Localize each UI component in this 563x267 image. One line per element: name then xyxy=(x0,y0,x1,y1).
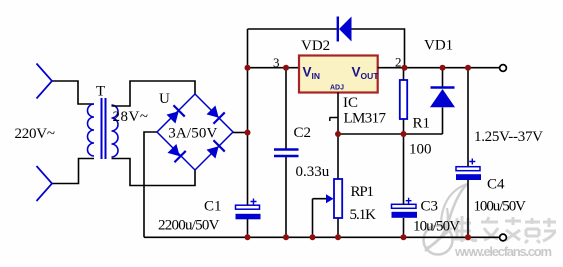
node: ground / C1 xyxy=(245,234,251,240)
bridge rectifier U diamond xyxy=(157,94,233,170)
svg-text:3A/50V: 3A/50V xyxy=(168,126,217,142)
bridge diode lower-left xyxy=(166,143,185,162)
svg-text:VD2: VD2 xyxy=(301,38,330,54)
pin number 1 (rotated, ADJ pin) xyxy=(330,118,338,122)
wire: ADJ node horizontal rail xyxy=(338,133,443,135)
diode VD2 xyxy=(338,17,352,42)
watermark text 电子发烧友 xyxy=(454,216,556,243)
watermark logo circle xyxy=(424,184,468,255)
svg-text:10u/50V: 10u/50V xyxy=(413,219,460,235)
svg-text:100: 100 xyxy=(409,142,432,158)
node: ADJ / C3 junction xyxy=(401,131,407,137)
resistor R1 xyxy=(403,68,405,134)
svg-text:www.elecfans.com: www.elecfans.com xyxy=(454,244,552,259)
transformer T secondary winding xyxy=(112,105,119,157)
svg-text:IC: IC xyxy=(343,95,358,111)
wire: bridge negative to ground rail xyxy=(144,132,157,237)
output terminal negative xyxy=(500,234,507,241)
node: VOUT pin 2 junction xyxy=(402,65,408,71)
svg-text:V: V xyxy=(352,65,361,80)
svg-text:RP1: RP1 xyxy=(351,184,375,200)
node: input rail / VD2 tap xyxy=(245,65,251,71)
node: ground / wiper xyxy=(310,234,316,240)
svg-text:C1: C1 xyxy=(204,199,222,215)
capacitor C2 xyxy=(285,68,287,238)
wire: bridge positive output to main node xyxy=(233,132,248,134)
svg-text:3: 3 xyxy=(273,55,280,70)
wire: main positive column xyxy=(247,29,249,205)
svg-text:220V~: 220V~ xyxy=(15,126,56,142)
svg-text:28V~: 28V~ xyxy=(113,109,149,125)
node: ground / C2 xyxy=(283,234,289,240)
svg-text:ADJ: ADJ xyxy=(330,85,344,92)
node: input rail / C2 tap xyxy=(283,65,289,71)
bridge diode upper-left xyxy=(165,105,184,124)
capacitor C1 (electrolytic) xyxy=(247,219,249,237)
op-amp regulator IC U1 LM317 body xyxy=(299,56,378,93)
transformer T core xyxy=(102,98,106,159)
RP1 wiper arm xyxy=(313,199,329,238)
svg-text:R1: R1 xyxy=(413,116,431,132)
capacitor C4 (electrolytic) xyxy=(467,68,469,238)
node: bridge positive junction xyxy=(245,130,251,136)
AC plug terminal top xyxy=(37,64,53,99)
svg-text:C3: C3 xyxy=(421,199,439,215)
svg-text:2200u/50V: 2200u/50V xyxy=(158,218,220,234)
bridge diode lower-right xyxy=(205,140,224,159)
node: VOUT rail / C4 tap xyxy=(465,65,471,71)
wire: AC mains bottom lead xyxy=(52,159,94,184)
node: ADJ / RP1 junction xyxy=(335,131,341,137)
svg-text:1.25V--37V: 1.25V--37V xyxy=(474,129,543,145)
wire: secondary bottom to bridge AC2 xyxy=(112,159,196,186)
svg-text:C2: C2 xyxy=(294,125,312,141)
transformer T primary winding xyxy=(88,104,94,156)
wire: VD2 bypass top right segment xyxy=(352,29,405,68)
svg-text:T: T xyxy=(96,84,105,100)
svg-text:U: U xyxy=(159,91,170,107)
potentiometer RP1 xyxy=(337,218,339,237)
bridge diode upper-right xyxy=(205,104,224,123)
svg-text:0.33u: 0.33u xyxy=(296,164,330,180)
wire: VOUT rail to output terminal xyxy=(378,67,500,69)
wire: ADJ pin column down to RP1 xyxy=(337,93,339,180)
svg-text:5.1K: 5.1K xyxy=(350,207,377,223)
svg-text:C4: C4 xyxy=(487,177,505,193)
wire: AC mains top lead xyxy=(52,81,94,104)
diode VD1 xyxy=(442,68,444,134)
node: ground / C3 xyxy=(401,234,407,240)
svg-text:100u/50V: 100u/50V xyxy=(474,199,527,215)
wire: secondary top to bridge AC1 xyxy=(112,81,196,106)
wire: ground bottom rail xyxy=(144,236,500,238)
svg-text:IN: IN xyxy=(312,71,321,81)
AC plug terminal bottom xyxy=(37,166,53,201)
output terminal positive xyxy=(500,65,507,72)
capacitor C3 (electrolytic) xyxy=(403,134,405,237)
svg-text:2: 2 xyxy=(395,55,402,70)
svg-text:LM317: LM317 xyxy=(344,111,387,127)
wire: VD2 bypass top left segment xyxy=(248,28,337,30)
svg-text:VD1: VD1 xyxy=(424,38,453,54)
node: ground / RP1 xyxy=(335,234,341,240)
node: ground / C4 xyxy=(465,234,471,240)
svg-text:V: V xyxy=(303,65,312,80)
svg-text:OUT: OUT xyxy=(361,71,380,81)
wire: input rail to VIN xyxy=(248,67,300,69)
node: VOUT rail / VD1 tap xyxy=(440,65,446,71)
